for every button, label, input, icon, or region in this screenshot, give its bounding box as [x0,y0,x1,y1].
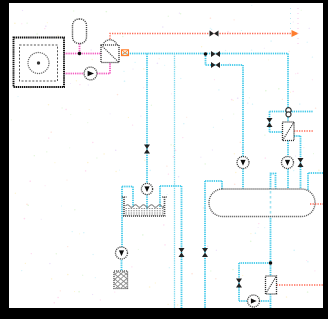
wire: cyan HX1 secondary out to valve to tank [294,136,301,190]
wire: red tank outlet stub [310,203,323,205]
wire: cyan below tank x=270.5 to node [270,216,272,263]
heat exchanger HX2 [266,276,277,294]
node A (vessel junction) [78,52,81,55]
wire: cyan HX1 bottom to pump to tank [287,141,289,191]
expansion vessel [73,19,87,44]
wire: pink boiler supply (y=53.5) [64,53,101,55]
wire: red HX1 output [294,130,313,132]
drain box (hatched) [114,271,128,289]
wire: cyan right drop x=288 to heat exchanger [287,54,289,123]
valve V7 vertical x=181.5 [179,248,185,257]
pump P6 (DHW loop) [248,295,260,307]
wire: cyan stub header y=111.5 [270,111,314,113]
orange sensor box [122,50,129,56]
valve V1 on red main [210,31,219,37]
pump P2 (reservoir feed) [141,183,152,194]
tank (horizontal cylinder) [209,189,315,217]
open reservoir tank [122,197,167,216]
wire: red heating flow main (dome top to arrow) [110,34,294,40]
mixing valve U1 (square with diagonal and dome) [101,40,119,63]
valve V2 cyan header [211,51,220,57]
wire: pink boiler return (y=73.5) [64,63,110,74]
pump P4 (HX1 to tank) [282,157,294,169]
node C (DHW junction) [269,261,272,264]
valve V6 vertical x=300.5 [298,158,304,167]
wire: cyan pipe inside tank (dashed) [270,191,272,215]
boiler [14,38,65,88]
wire: cyan from right edge into tank [308,173,323,191]
valve V4 vertical x=147 [144,145,150,154]
faint dotted column 2 [297,8,299,44]
faint dotted column 1 [290,8,292,30]
valve V3 cyan branch [211,62,220,68]
wire: cyan reservoir left suction loop [122,187,133,249]
valve V5 vertical x=269.5 [267,118,273,127]
heat exchanger HX1 [283,122,295,141]
wire: cyan tank bridge right [271,174,276,191]
valve V9 vertical x=239 [236,279,242,288]
wire: cyan branch from node at 205.5 down and right [206,54,244,191]
wire: cyan HX primary in loop [270,112,283,133]
wire: pink expansion vessel stub [79,44,81,54]
border mask strips [0,0,328,3]
wire: cyan below left pump to drain box [121,258,123,271]
wire: cyan main top header y=53.5 [121,53,288,55]
wire: red HX2 output [277,284,324,286]
valve V8 vertical x=205 [202,248,208,257]
wire: cyan drop x=174.5 full height [174,54,176,311]
pump P3 (tank charge) [237,157,249,169]
pump P5 (reservoir drain) [116,247,128,259]
wire: cyan tank bridge left [205,181,222,190]
wire: cyan reservoir manifold [160,186,182,310]
node B (header junction) [204,52,207,55]
check valve (double circle) [286,108,291,117]
wire: cyan drop x=205 to bottom [204,181,206,310]
arrowhead red main [292,30,299,37]
wire: cyan DHW loop bottom [239,263,271,310]
wire: cyan drop x=147 to reservoir [146,54,148,211]
pump P1 (boiler return) [84,67,97,80]
